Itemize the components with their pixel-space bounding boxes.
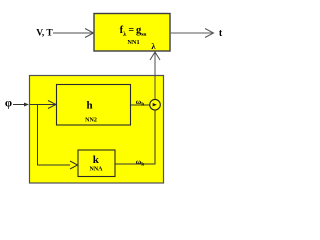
svg-text:V, T: V, T [36,29,53,39]
svg-text:k: k [93,154,100,166]
svg-text:NN1: NN1 [127,39,139,46]
svg-text:h: h [86,100,92,112]
svg-text:NNA: NNA [90,166,104,172]
svg-text:φ: φ [5,98,12,110]
svg-text:NN2: NN2 [85,117,97,123]
